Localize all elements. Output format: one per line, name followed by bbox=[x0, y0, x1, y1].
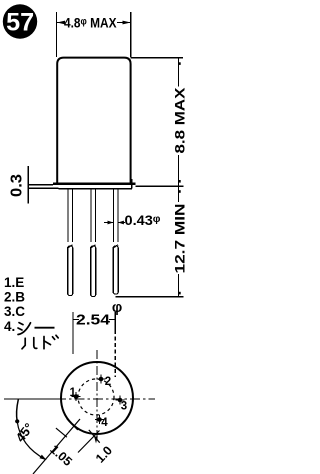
katakana シ bbox=[18, 323, 31, 335]
svg-text:8.8 MAX: 8.8 MAX bbox=[171, 87, 187, 154]
svg-text:2.B: 2.B bbox=[4, 290, 25, 305]
circled index 57 bbox=[3, 4, 37, 38]
svg-text:0.3: 0.3 bbox=[9, 174, 26, 197]
dimension 12.7 MIN (lead length) bbox=[116, 186, 184, 297]
katakana ル bbox=[22, 338, 37, 349]
pin 4 bbox=[95, 415, 108, 429]
45 degree reference line bbox=[33, 419, 80, 474]
katakana ー bbox=[35, 327, 55, 329]
svg-text:2.54: 2.54 bbox=[76, 313, 110, 329]
pin 1 bbox=[69, 387, 80, 401]
angle arc 45° bbox=[17, 400, 19, 422]
bottom view: outer circle bbox=[61, 362, 133, 434]
dimension 0.43φ (lead diameter) bbox=[104, 222, 125, 224]
dimension 8.8 MAX (can height) bbox=[131, 58, 183, 187]
svg-text:1.E: 1.E bbox=[4, 275, 24, 290]
lead 1 (side view) bbox=[67, 189, 73, 296]
lead list: 1.E 2.B 3.C 4.shield bbox=[4, 275, 25, 334]
svg-text:3: 3 bbox=[121, 401, 127, 413]
svg-text:12.7 MIN: 12.7 MIN bbox=[171, 204, 187, 274]
katakana ド bbox=[44, 335, 58, 349]
svg-text:4: 4 bbox=[101, 417, 108, 429]
base flange bbox=[28, 179, 135, 189]
lead 2 (side view) bbox=[90, 189, 96, 297]
svg-text:4.: 4. bbox=[4, 319, 15, 334]
vertical centerline bbox=[96, 350, 98, 440]
pin 3 bbox=[116, 396, 128, 413]
transistor can body bbox=[57, 58, 130, 184]
tick T1 bbox=[56, 428, 67, 437]
bottom view: pin circle (dashed) bbox=[78, 379, 114, 415]
tick T2 bbox=[67, 419, 78, 430]
svg-text:2: 2 bbox=[105, 376, 111, 388]
svg-text:57: 57 bbox=[6, 8, 34, 36]
lead 3 (side view) bbox=[113, 189, 119, 294]
svg-text:φ: φ bbox=[112, 300, 122, 316]
horizontal centerline bbox=[4, 398, 56, 400]
dimension 4.8φ MAX bbox=[57, 12, 131, 57]
svg-text:3.C: 3.C bbox=[4, 304, 25, 319]
dimension line for 1.0 bbox=[78, 431, 100, 453]
dimension 0.3 (flange thickness) bbox=[27, 166, 29, 204]
pin 2 bbox=[97, 375, 112, 389]
tick T3 bbox=[89, 430, 100, 443]
svg-text:1: 1 bbox=[69, 387, 76, 399]
svg-text:4.8φ MAX: 4.8φ MAX bbox=[64, 15, 117, 30]
dimension 2.54φ (pin circle) bbox=[73, 312, 115, 377]
